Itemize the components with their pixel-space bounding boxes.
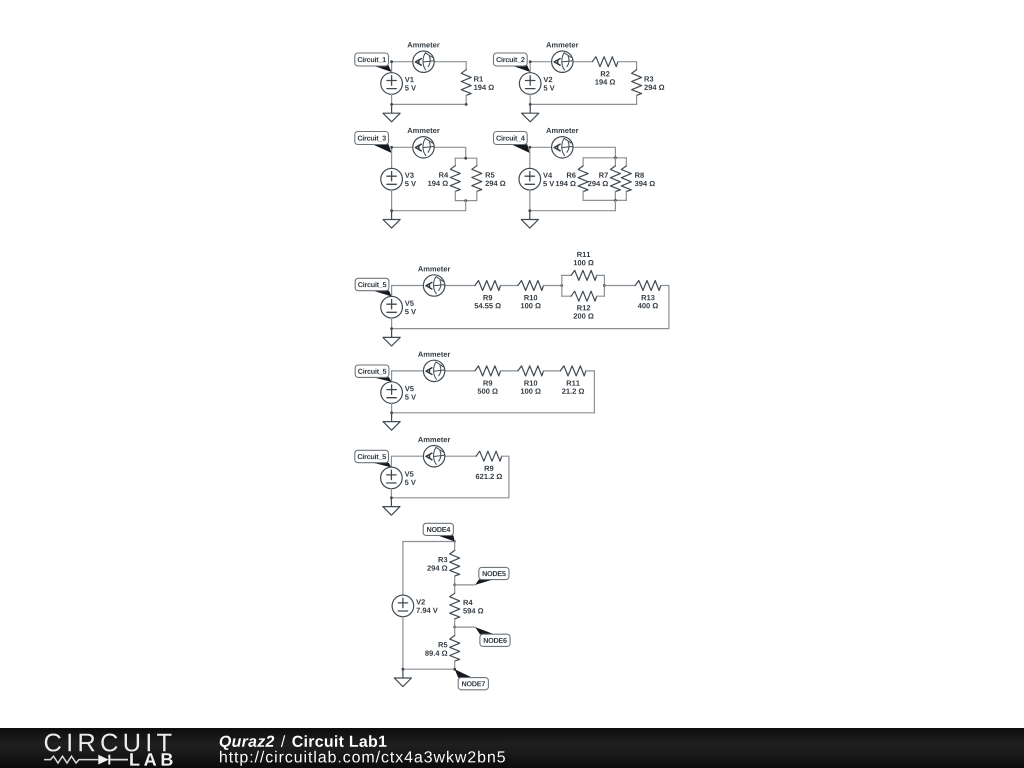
wire C4 parallel top bar xyxy=(583,157,626,159)
resistor R3 294 Ω (divider) xyxy=(427,550,459,576)
ground C4 xyxy=(521,211,538,228)
wire C5b right side xyxy=(586,371,595,413)
wire C3 bottom xyxy=(392,210,466,212)
wire C2 top right xyxy=(618,62,637,70)
wire C1 R1 bottom lead xyxy=(465,95,467,104)
wire C3 down right xyxy=(465,201,467,211)
title Quraz2 / Circuit Lab1 xyxy=(220,736,275,750)
wire N R3 top lead xyxy=(454,542,456,551)
node NODE5 junction xyxy=(453,584,456,587)
wire C3 V3 bottom lead xyxy=(391,190,393,211)
resistor R3 294 Ω xyxy=(632,70,665,96)
wire C3 R5 top lead xyxy=(476,158,478,166)
resistor R9 621.2 Ω xyxy=(476,451,502,479)
node C5a parallel right junction xyxy=(603,284,606,287)
ammeter AM5a xyxy=(423,275,444,296)
node NODE7 junction xyxy=(453,668,456,671)
node C5a bottom junction xyxy=(390,327,393,330)
node C1 bottom left junction xyxy=(390,103,393,106)
wire C1 V1 bottom lead xyxy=(391,94,393,104)
node NODE6 junction xyxy=(453,626,456,629)
node C2 bottom junction xyxy=(529,103,532,106)
wire C5c V5 bottom lead xyxy=(390,489,392,498)
ammeter AM3 xyxy=(413,137,434,158)
label NODE6 xyxy=(475,627,510,646)
node C5a parallel left junction xyxy=(560,284,563,287)
resistor R10 100 Ω (row 2) xyxy=(518,366,544,394)
wire C4 R8 bottom lead xyxy=(625,192,627,201)
ground C3 xyxy=(383,211,400,228)
wire C5b bottom xyxy=(392,412,595,414)
wire C2 bottom xyxy=(530,103,636,105)
node C4 top junction xyxy=(528,146,531,149)
resistor R1 194 Ω xyxy=(461,70,494,96)
wire C5a parallel left post xyxy=(561,275,563,296)
wire C3 top xyxy=(392,147,466,158)
wire C4 parallel bottom bar xyxy=(583,199,626,201)
ground C1 xyxy=(383,104,400,121)
wire C5c top xyxy=(391,456,476,467)
resistor R2 194 Ω xyxy=(592,57,618,85)
resistor R11 100 Ω xyxy=(571,270,597,280)
wire C4 R6 bottom lead xyxy=(582,192,584,201)
wire N R5 top lead xyxy=(454,627,456,635)
voltage source V5 5 V (row 1) xyxy=(381,296,416,318)
wire N bottom xyxy=(403,668,455,670)
wire N V2 bottom lead xyxy=(402,617,404,670)
node C4 parallel bottom junction xyxy=(614,199,617,202)
logo diode xyxy=(98,755,108,765)
node C5c bottom junction xyxy=(390,496,393,499)
label Circuit_2 xyxy=(494,53,531,72)
wire C4 down right xyxy=(614,200,616,210)
resistor R4 194 Ω xyxy=(428,166,460,192)
resistor R4 594 Ω (divider) xyxy=(450,593,484,619)
resistor R13 400 Ω xyxy=(635,281,661,309)
wire N R4 bottom lead xyxy=(454,619,456,627)
voltage source V1 5 V xyxy=(381,73,416,95)
footer bar xyxy=(0,728,1024,768)
label Circuit_3 xyxy=(355,132,392,154)
resistor R8 394 Ω xyxy=(621,166,655,192)
wire NODE6 stub xyxy=(455,626,476,628)
resistor R5 89.4 Ω (divider) xyxy=(425,636,460,662)
wire C4 top xyxy=(530,147,616,158)
wire C1 V1 top lead xyxy=(391,62,393,73)
wire C5a parallel right post xyxy=(603,275,605,296)
wire C5a R10-parallel xyxy=(544,285,562,287)
label NODE5 xyxy=(475,567,509,585)
resistor R9 54.55 Ω xyxy=(475,281,501,309)
wire C5a parallel-R13 xyxy=(604,285,635,287)
wire C3 V3 top lead xyxy=(391,147,393,168)
label Circuit_4 xyxy=(494,132,530,154)
ammeter AM2 xyxy=(552,51,573,72)
wire N R3 bottom lead xyxy=(454,576,456,585)
wire C5b top xyxy=(392,371,475,382)
node C3 bottom junction xyxy=(390,209,393,212)
wire C5a V5 bottom lead xyxy=(391,318,393,329)
resistor R7 294 Ω xyxy=(588,166,620,192)
wire NODE5 stub xyxy=(455,584,476,586)
node C2 top junction xyxy=(529,60,532,63)
node C5b bottom junction xyxy=(390,411,393,414)
wire C5c right side xyxy=(502,456,509,498)
voltage source V5 5 V (row 3) xyxy=(381,467,416,489)
wire C3 R5 bottom lead xyxy=(476,191,478,200)
logo LAB xyxy=(130,753,172,765)
wire C2 V2 bottom lead xyxy=(529,94,531,104)
wire C5a bottom branch right stub xyxy=(597,295,605,297)
ammeter AM5c xyxy=(423,446,444,467)
wire C2 V2 top lead xyxy=(529,62,531,73)
ground N xyxy=(394,669,411,686)
wire N V2 top lead xyxy=(402,542,404,596)
voltage source V2 5 V xyxy=(519,73,554,95)
ammeter AM5b xyxy=(423,360,444,381)
node C4 parallel top junction xyxy=(614,156,617,159)
ground C5b xyxy=(383,413,400,430)
voltage source V2 7.94 V xyxy=(392,595,438,617)
wire N R5 bottom lead xyxy=(454,661,456,669)
wire N top xyxy=(403,541,455,543)
wire N R4 top lead xyxy=(454,585,456,593)
label NODE4 xyxy=(423,523,455,541)
node C3 parallel bottom junction xyxy=(464,199,467,202)
voltage source V5 5 V (row 2) xyxy=(381,382,416,404)
wire C2 top left xyxy=(530,61,592,63)
node C4 bottom junction xyxy=(528,209,531,212)
voltage source V4 5 V xyxy=(519,168,554,190)
resistor R9 500 Ω xyxy=(475,366,501,394)
wire C3 parallel top bar xyxy=(455,157,477,159)
wire C5b R10-R11 xyxy=(544,370,561,372)
CIRCUIT logo wordmark xyxy=(45,733,172,751)
node C3 top junction xyxy=(390,146,393,149)
voltage source V3 5 V xyxy=(381,168,416,190)
label Circuit_5 (row 3) xyxy=(355,450,392,467)
node NODE4 junction xyxy=(454,540,456,542)
wire C5b R9-R10 xyxy=(501,370,518,372)
wire C5a right side xyxy=(661,286,669,329)
node C1 top junction xyxy=(390,60,393,63)
label Circuit_5 (row 1) xyxy=(355,278,391,296)
wire C5c bottom xyxy=(391,497,509,499)
ground C5a xyxy=(383,329,400,346)
url xyxy=(220,751,505,766)
resistor R10 100 Ω (row 1) xyxy=(518,281,544,309)
wire C1 bottom xyxy=(392,103,467,105)
resistor R5 294 Ω xyxy=(472,166,506,192)
wire C5a bottom branch left stub xyxy=(562,295,571,297)
wire C5a top xyxy=(392,286,475,297)
ground C5c xyxy=(383,498,400,515)
ground C2 xyxy=(522,104,539,121)
ammeter AM4 xyxy=(552,137,573,158)
wire C4 R7 top lead xyxy=(614,158,616,166)
wire C4 V4 bottom lead xyxy=(529,190,531,211)
wire C2 R3 bottom lead xyxy=(636,95,638,104)
wire C4 V4 top lead xyxy=(529,147,531,168)
wire C4 R8 top lead xyxy=(625,158,627,166)
resistor R6 194 Ω xyxy=(556,166,588,192)
ammeter AM1 xyxy=(413,51,434,72)
wire C5a top branch right stub xyxy=(597,274,605,276)
wire C5a top branch left stub xyxy=(562,274,571,276)
wire C5a R9-R10 xyxy=(501,285,518,287)
node C1 bottom right junction xyxy=(465,103,468,106)
wire C5b V5 bottom lead xyxy=(391,403,393,412)
wire C1 top xyxy=(392,61,467,63)
wire C3 R4 bottom lead xyxy=(454,191,456,200)
resistor R12 200 Ω xyxy=(571,291,597,301)
wire C5a bottom xyxy=(392,328,669,330)
wire C4 R6 top lead xyxy=(582,158,584,166)
wire C4 bottom xyxy=(530,210,616,212)
resistor R11 21.2 Ω xyxy=(560,366,586,394)
node C3 parallel top junction xyxy=(464,157,467,160)
label Circuit_1 xyxy=(355,53,392,72)
node N bottom left junction xyxy=(402,668,405,671)
wire C3 parallel bottom bar xyxy=(455,200,477,202)
wire C1 R1 top lead xyxy=(465,62,467,70)
wire C3 R4 top lead xyxy=(454,158,456,166)
label NODE7 xyxy=(455,669,489,690)
logo resistor squiggle xyxy=(44,756,98,763)
label Circuit_5 (row 2) xyxy=(355,365,391,382)
wire C4 R7 bottom lead xyxy=(614,192,616,201)
